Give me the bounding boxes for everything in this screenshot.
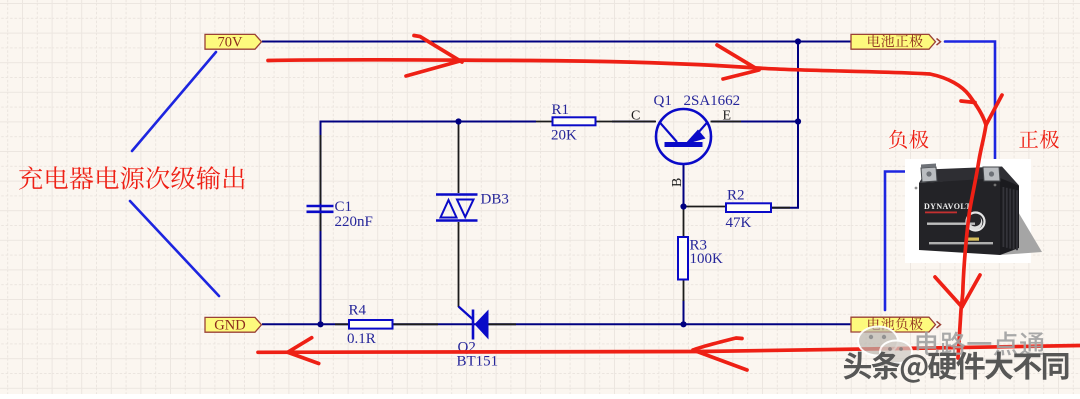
svg-text:100K: 100K: [690, 251, 724, 267]
svg-text:B: B: [670, 178, 685, 187]
svg-text:E: E: [723, 109, 732, 124]
svg-text:Q1: Q1: [654, 93, 672, 109]
svg-text:2SA1662: 2SA1662: [684, 93, 741, 109]
svg-text:47K: 47K: [726, 215, 752, 231]
svg-text:BT151: BT151: [457, 354, 499, 370]
svg-text:0.1R: 0.1R: [347, 331, 376, 347]
svg-text:R2: R2: [727, 188, 745, 204]
svg-text:GND: GND: [214, 318, 245, 334]
svg-text:C1: C1: [335, 199, 353, 215]
svg-text:R1: R1: [552, 102, 570, 118]
svg-text:220nF: 220nF: [335, 214, 373, 230]
svg-text:C: C: [631, 109, 640, 124]
svg-text:R4: R4: [349, 303, 367, 319]
svg-text:DB3: DB3: [481, 192, 509, 208]
svg-text:70V: 70V: [218, 35, 244, 51]
svg-text:DYNAVOLT: DYNAVOLT: [924, 202, 971, 211]
svg-text:20K: 20K: [551, 128, 577, 144]
